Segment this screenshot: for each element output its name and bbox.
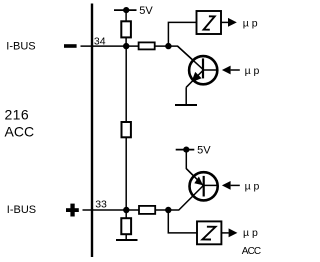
plus polarity symbol bbox=[66, 204, 79, 217]
wire: node 34 to node 33 (vertical, through R3) bbox=[125, 46, 127, 210]
pulse shaper U2 (box with limiter symbol) bbox=[197, 221, 221, 244]
svg-text:µ p: µ p bbox=[243, 227, 258, 239]
wire: 5V to transistor Q2 emitter bbox=[186, 150, 203, 186]
5V supply (lower): rail, dot and label bbox=[176, 145, 212, 157]
minus polarity symbol bbox=[64, 44, 77, 48]
transistor Q2 (lower) bbox=[186, 169, 218, 201]
svg-text:33: 33 bbox=[95, 199, 107, 211]
wire: node A up to pulse shaper U1 bbox=[168, 22, 196, 46]
resistor R4 (pull-down to ground) bbox=[121, 218, 131, 234]
svg-text:I-BUS: I-BUS bbox=[7, 204, 36, 216]
arrow: U1 output to microprocessor bbox=[221, 18, 237, 27]
svg-text:216: 216 bbox=[5, 107, 30, 123]
resistor R1 (pull-up to 5V) bbox=[121, 21, 131, 37]
svg-text:ACC: ACC bbox=[5, 123, 35, 139]
wire: node B down to pulse shaper U2 bbox=[168, 210, 197, 233]
ground (R4) bbox=[116, 239, 138, 241]
arrow: U2 output to microprocessor bbox=[221, 228, 237, 237]
svg-text:5V: 5V bbox=[197, 145, 211, 157]
ground (Q1 emitter) bbox=[175, 104, 197, 106]
wire: Q2 collector to node B bbox=[168, 185, 203, 210]
wire: minus to node 34 row bbox=[81, 45, 169, 47]
wire: plus to node 33 row bbox=[83, 209, 169, 211]
wire: node A to transistor Q1 collector bbox=[168, 46, 203, 70]
resistor R5 (series, lower) bbox=[139, 206, 155, 214]
junction node 34 bbox=[123, 43, 129, 49]
module label 216 ACC bbox=[5, 107, 35, 140]
svg-text:34: 34 bbox=[94, 35, 106, 47]
transistor Q1 (upper) bbox=[178, 46, 219, 84]
arrow: microprocessor to Q2 base bbox=[222, 181, 240, 190]
Q1 emitter wire with arrow, to ground bbox=[186, 70, 203, 104]
svg-text:5V: 5V bbox=[139, 5, 153, 17]
wire: node 33 to ground (through R4) bbox=[125, 210, 127, 240]
resistor R2 (series, upper) bbox=[139, 42, 155, 49]
junction node A (upper, after R2) bbox=[165, 43, 171, 49]
svg-text:µ p: µ p bbox=[245, 180, 260, 192]
svg-text:I-BUS: I-BUS bbox=[6, 41, 35, 53]
wire: 5V to node 34 (through R1) bbox=[125, 10, 127, 46]
svg-text:µ p: µ p bbox=[243, 17, 258, 29]
I-BUS vertical bus line bbox=[91, 4, 93, 258]
junction node 33 bbox=[123, 207, 129, 213]
arrow: microprocessor to Q1 base bbox=[222, 66, 240, 75]
svg-text:ACC: ACC bbox=[242, 246, 261, 257]
5V supply (top): rail, dot and label bbox=[114, 5, 153, 17]
svg-text:µ p: µ p bbox=[245, 65, 260, 77]
junction node B (lower, after R5) bbox=[165, 207, 171, 213]
pulse shaper U1 (box with limiter symbol) bbox=[197, 11, 222, 34]
resistor R3 (between bus lines) bbox=[122, 122, 131, 137]
